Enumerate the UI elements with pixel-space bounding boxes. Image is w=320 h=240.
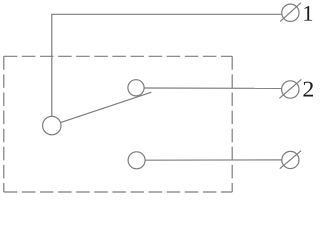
contact circle throw 2	[128, 152, 145, 169]
wire contact to terminal 2	[144, 87, 282, 89]
terminal 1 circle	[282, 4, 299, 21]
label 1	[304, 6, 312, 21]
contact circle throw 1	[128, 80, 144, 96]
wire contact to terminal 3	[145, 159, 282, 161]
terminal 3 circle	[282, 151, 299, 168]
wire pole to terminal 1	[52, 14, 282, 116]
pole contact circle (common)	[43, 116, 61, 134]
switch blade	[61, 92, 152, 122]
enclosure dashed box	[4, 56, 232, 192]
terminal 2 circle	[282, 81, 299, 98]
label 2	[303, 82, 313, 97]
terminal 3 slash	[280, 151, 301, 169]
terminal 2 slash	[279, 79, 301, 98]
terminal 1 slash	[280, 3, 301, 22]
